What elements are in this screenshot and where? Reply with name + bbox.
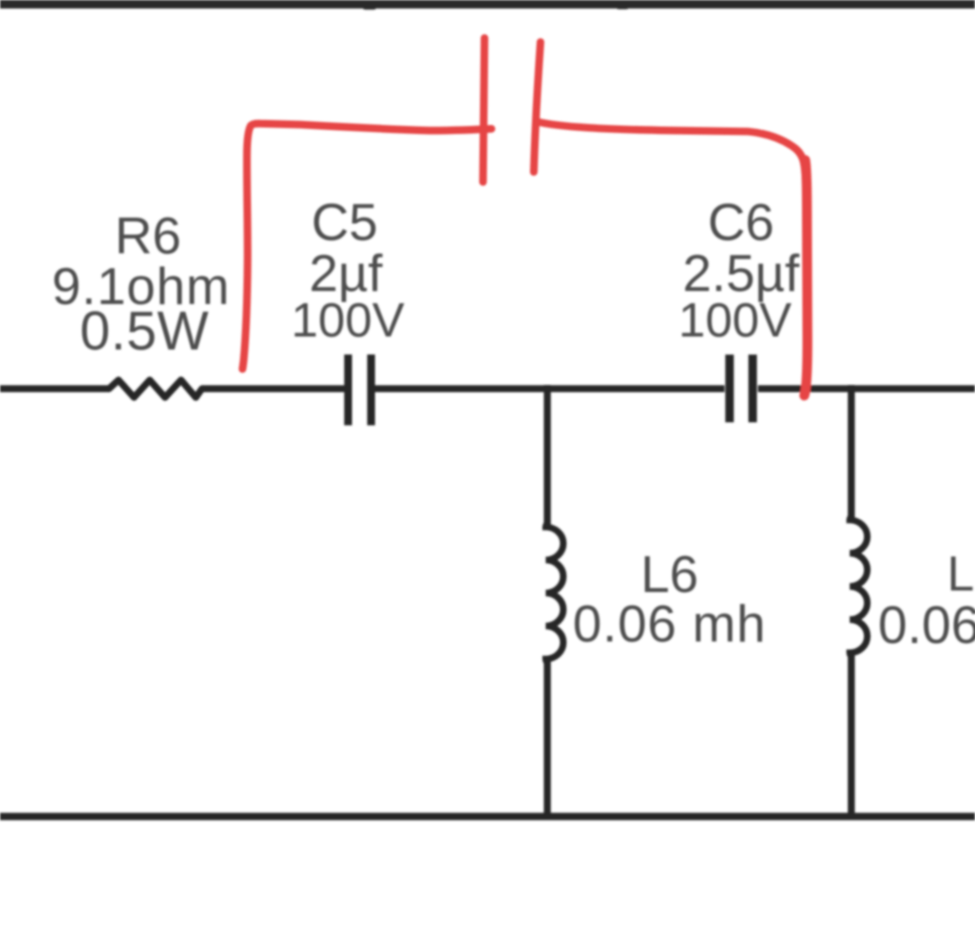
resistor R6 [109,380,202,397]
wire top bus [0,0,975,9]
wire bottom bus [0,813,975,820]
inductor L7 [850,517,868,656]
red annotation: right wire from cap to node [537,122,808,397]
node junction tick right on top bus [616,4,629,9]
svg-text:100V: 100V [678,294,792,348]
wire vertical branch 2 upper [848,385,855,522]
label L7 0.06 (cut off) [878,548,975,656]
label R6 9.1ohm 0.5W [52,208,230,362]
wire between R6 and C5 [202,385,345,392]
wire vertical branch 1 upper [544,385,551,529]
red annotation: capacitor left plate [483,38,485,182]
svg-text:C6: C6 [708,194,774,252]
label C5 2uf 100V [291,194,405,348]
node junction tick left on top bus [363,4,377,10]
svg-text:L: L [947,548,974,602]
inductor L6 [546,524,564,662]
svg-text:0.06: 0.06 [878,596,975,655]
label C6 2.5uf 100V [678,194,800,348]
svg-text:R6: R6 [115,208,181,266]
capacitor C6 [725,355,757,423]
svg-text:100V: 100V [291,294,405,348]
wire vertical branch 2 lower [848,650,855,820]
wire main horizontal left segment [0,385,110,392]
label L6 0.06 mh [573,546,767,654]
capacitor C5 [344,355,375,426]
red annotation: left wire from node to cap [243,124,492,369]
red annotation: capacitor right plate [534,42,541,172]
wire between C5 and C6 [375,385,725,392]
wire between C6 and right edge [758,385,975,392]
svg-text:C5: C5 [311,194,377,252]
svg-text:0.5W: 0.5W [80,301,209,362]
svg-text:0.06 mh: 0.06 mh [573,596,767,654]
red annotation: right wire vertical overdraw [804,160,807,396]
wire vertical branch 1 lower [544,656,551,820]
